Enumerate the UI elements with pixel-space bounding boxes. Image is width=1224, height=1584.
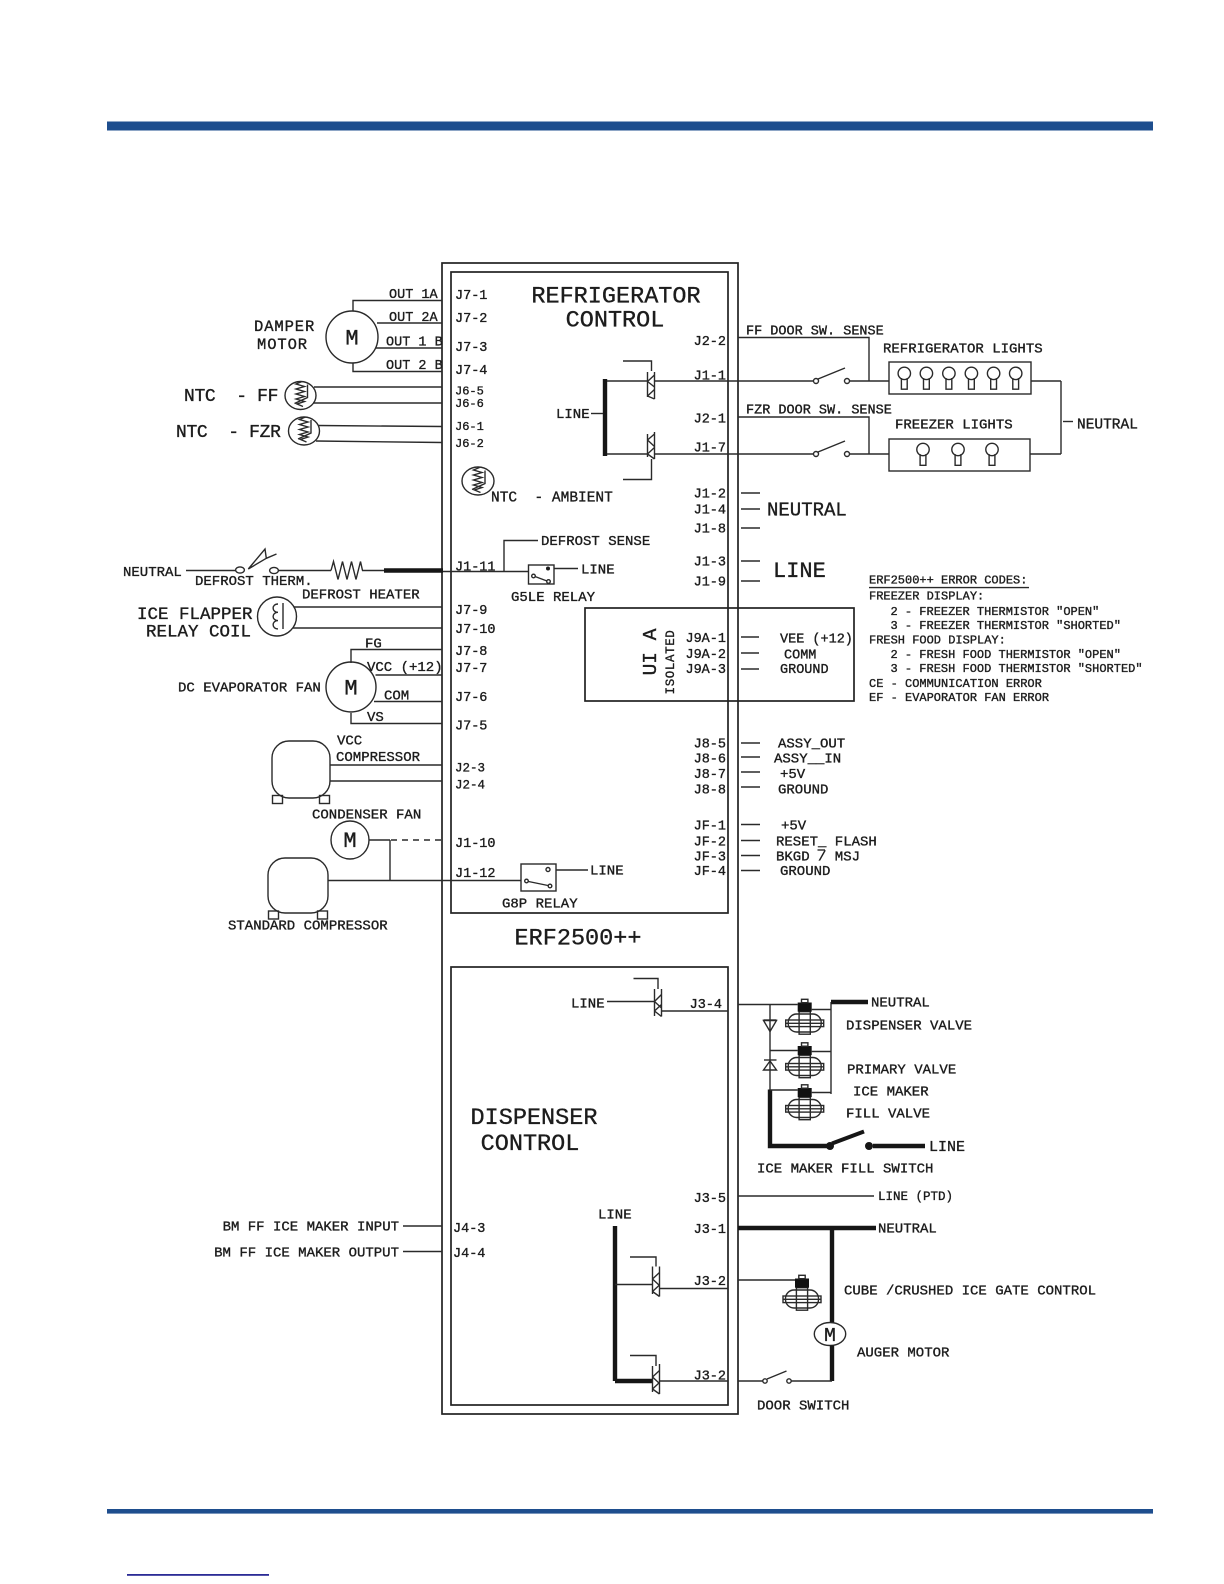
svg-text:J1-4: J1-4	[694, 504, 726, 519]
svg-text:3 - FRESH FOOD THERMISTOR "SHO: 3 - FRESH FOOD THERMISTOR "SHORTED"	[891, 662, 1143, 676]
svg-text:J9A-3: J9A-3	[685, 663, 726, 678]
svg-text:J7-7: J7-7	[455, 662, 487, 677]
svg-text:CUBE /CRUSHED ICE GATE CONTROL: CUBE /CRUSHED ICE GATE CONTROL	[844, 1284, 1096, 1300]
svg-text:J7-3: J7-3	[455, 341, 487, 356]
svg-text:M: M	[343, 829, 356, 854]
svg-text:ICE MAKER: ICE MAKER	[853, 1085, 929, 1101]
svg-text:G8P RELAY: G8P RELAY	[502, 897, 578, 913]
svg-text:J6-6: J6-6	[455, 397, 484, 411]
svg-text:LINE: LINE	[556, 407, 590, 423]
svg-text:RELAY COIL: RELAY COIL	[146, 623, 251, 643]
svg-text:M: M	[344, 677, 357, 702]
svg-text:LINE: LINE	[590, 864, 624, 880]
svg-text:J3-2: J3-2	[694, 1275, 726, 1290]
svg-text:AUGER MOTOR: AUGER MOTOR	[857, 1346, 950, 1362]
svg-text:FRESH FOOD DISPLAY:: FRESH FOOD DISPLAY:	[869, 634, 1006, 648]
svg-text:J2-4: J2-4	[455, 779, 485, 793]
svg-text:J6-1: J6-1	[455, 420, 484, 434]
svg-text:M: M	[345, 327, 358, 352]
svg-text:J1-8: J1-8	[694, 523, 726, 538]
svg-text:J1-1: J1-1	[694, 370, 726, 385]
svg-text:ISOLATED: ISOLATED	[664, 630, 678, 695]
svg-text:NEUTRAL: NEUTRAL	[871, 996, 930, 1012]
svg-text:STANDARD COMPRESSOR: STANDARD COMPRESSOR	[228, 919, 388, 935]
svg-text:ASSY__IN: ASSY__IN	[774, 752, 841, 768]
svg-text:3 - FREEZER THERMISTOR "SHORTE: 3 - FREEZER THERMISTOR "SHORTED"	[891, 619, 1121, 633]
svg-text:CONTROL: CONTROL	[481, 1131, 580, 1158]
svg-text:FZR DOOR SW. SENSE: FZR DOOR SW. SENSE	[746, 404, 892, 419]
svg-text:+5V: +5V	[780, 767, 806, 783]
svg-text:UI A: UI A	[640, 628, 662, 675]
svg-text:JF-2: JF-2	[694, 836, 726, 851]
svg-text:J7-9: J7-9	[455, 604, 487, 619]
svg-text:DEFROST SENSE: DEFROST SENSE	[541, 534, 650, 550]
svg-text:COMM: COMM	[784, 649, 816, 664]
svg-text:J1-11: J1-11	[455, 561, 496, 576]
svg-text:NTC - FF: NTC - FF	[184, 387, 278, 407]
svg-text:J8-8: J8-8	[694, 784, 726, 799]
svg-text:J7-4: J7-4	[455, 364, 487, 379]
svg-text:DEFROST HEATER: DEFROST HEATER	[302, 588, 420, 604]
svg-text:JF-4: JF-4	[694, 865, 726, 880]
svg-text:JF-1: JF-1	[694, 820, 726, 835]
svg-text:+5V: +5V	[781, 819, 807, 835]
svg-text:VCC: VCC	[337, 734, 362, 750]
svg-text:J7-1: J7-1	[455, 289, 487, 304]
svg-text:FREEZER DISPLAY:: FREEZER DISPLAY:	[869, 590, 984, 604]
svg-text:LINE: LINE	[773, 559, 826, 584]
svg-text:DOOR SWITCH: DOOR SWITCH	[757, 1399, 849, 1415]
svg-text:G5LE RELAY: G5LE RELAY	[511, 590, 596, 606]
svg-text:J7-10: J7-10	[455, 623, 496, 638]
svg-text:CE - COMMUNICATION ERROR: CE - COMMUNICATION ERROR	[869, 677, 1042, 691]
svg-text:2 - FRESH FOOD THERMISTOR "OPE: 2 - FRESH FOOD THERMISTOR "OPEN"	[891, 648, 1121, 662]
svg-text:J3-5: J3-5	[694, 1192, 726, 1207]
svg-text:NEUTRAL: NEUTRAL	[767, 500, 847, 522]
svg-text:OUT 1 B: OUT 1 B	[386, 336, 443, 351]
svg-text:VCC (+12): VCC (+12)	[367, 660, 443, 676]
svg-text:COMPRESSOR: COMPRESSOR	[336, 750, 421, 766]
svg-text:NTC - FZR: NTC - FZR	[176, 423, 281, 443]
svg-text:CONDENSER FAN: CONDENSER FAN	[312, 808, 421, 824]
svg-text:J6-2: J6-2	[455, 437, 484, 451]
svg-text:J3-2: J3-2	[694, 1370, 726, 1385]
svg-text:OUT 1A: OUT 1A	[389, 288, 439, 303]
svg-text:JF-3: JF-3	[694, 851, 726, 866]
svg-text:FILL VALVE: FILL VALVE	[846, 1107, 930, 1123]
svg-text:J7-5: J7-5	[455, 720, 487, 735]
svg-text:DEFROST THERM.: DEFROST THERM.	[195, 574, 313, 590]
svg-text:LINE: LINE	[571, 997, 605, 1013]
svg-text:J9A-1: J9A-1	[685, 632, 726, 647]
svg-text:M: M	[824, 1325, 836, 1347]
svg-text:J3-1: J3-1	[694, 1223, 726, 1238]
svg-text:VEE (+12): VEE (+12)	[780, 633, 853, 648]
svg-text:DISPENSER VALVE: DISPENSER VALVE	[846, 1019, 972, 1035]
svg-text:J7-8: J7-8	[455, 645, 487, 660]
svg-text:J7-6: J7-6	[455, 691, 487, 706]
svg-text:NEUTRAL: NEUTRAL	[123, 565, 182, 581]
svg-text:ERF2500++: ERF2500++	[515, 926, 642, 953]
svg-text:J1-12: J1-12	[455, 867, 496, 882]
svg-text:J4-4: J4-4	[453, 1247, 485, 1262]
svg-text:J2-3: J2-3	[455, 762, 485, 776]
svg-text:DC EVAPORATOR FAN: DC EVAPORATOR FAN	[178, 681, 321, 697]
svg-text:OUT 2A: OUT 2A	[389, 311, 439, 326]
svg-text:FREEZER LIGHTS: FREEZER LIGHTS	[895, 418, 1013, 434]
svg-text:RESET_ FLASH: RESET_ FLASH	[776, 835, 877, 851]
svg-text:GROUND: GROUND	[778, 783, 828, 799]
svg-text:J2-2: J2-2	[694, 335, 726, 350]
svg-text:NTC - AMBIENT: NTC - AMBIENT	[491, 491, 613, 507]
svg-text:NEUTRAL: NEUTRAL	[878, 1222, 937, 1238]
svg-text:EF - EVAPORATOR FAN ERROR: EF - EVAPORATOR FAN ERROR	[869, 691, 1049, 705]
svg-text:ERF2500++ ERROR CODES:: ERF2500++ ERROR CODES:	[869, 574, 1027, 588]
svg-text:REFRIGERATOR: REFRIGERATOR	[531, 284, 700, 311]
svg-text:LINE: LINE	[598, 1208, 632, 1224]
svg-text:ICE MAKER FILL SWITCH: ICE MAKER FILL SWITCH	[757, 1162, 933, 1178]
svg-text:J9A-2: J9A-2	[685, 648, 726, 663]
svg-text:MOTOR: MOTOR	[257, 336, 308, 354]
svg-text:BM FF ICE MAKER OUTPUT: BM FF ICE MAKER OUTPUT	[214, 1246, 399, 1262]
svg-text:J8-7: J8-7	[694, 768, 726, 783]
svg-text:LINE (PTD): LINE (PTD)	[878, 1190, 953, 1204]
svg-text:ASSY_OUT: ASSY_OUT	[778, 737, 845, 753]
svg-text:DAMPER: DAMPER	[254, 318, 315, 336]
svg-text:J1-3: J1-3	[694, 556, 726, 571]
svg-text:NEUTRAL: NEUTRAL	[1077, 418, 1138, 434]
svg-text:GROUND: GROUND	[780, 663, 829, 678]
svg-text:DISPENSER: DISPENSER	[471, 1105, 598, 1132]
svg-text:OUT 2 B: OUT 2 B	[386, 359, 443, 374]
svg-text:REFRIGERATOR LIGHTS: REFRIGERATOR LIGHTS	[883, 342, 1043, 358]
svg-text:J1-2: J1-2	[694, 488, 726, 503]
svg-text:LINE: LINE	[929, 1139, 965, 1156]
svg-text:J8-5: J8-5	[694, 738, 726, 753]
svg-text:FF DOOR SW. SENSE: FF DOOR SW. SENSE	[746, 325, 884, 340]
svg-text:LINE: LINE	[581, 563, 615, 579]
svg-text:J2-1: J2-1	[694, 413, 726, 428]
svg-text:PRIMARY VALVE: PRIMARY VALVE	[847, 1063, 956, 1079]
svg-text:J1-10: J1-10	[455, 837, 496, 852]
svg-text:2 - FREEZER THERMISTOR "OPEN": 2 - FREEZER THERMISTOR "OPEN"	[891, 605, 1100, 619]
svg-text:J7-2: J7-2	[455, 312, 487, 327]
svg-text:BM FF ICE MAKER INPUT: BM FF ICE MAKER INPUT	[223, 1220, 399, 1236]
svg-text:J4-3: J4-3	[453, 1222, 485, 1237]
svg-text:CONTROL: CONTROL	[566, 308, 665, 335]
svg-text:J8-6: J8-6	[694, 753, 726, 768]
svg-text:GROUND: GROUND	[780, 864, 830, 880]
svg-text:J1-9: J1-9	[694, 576, 726, 591]
